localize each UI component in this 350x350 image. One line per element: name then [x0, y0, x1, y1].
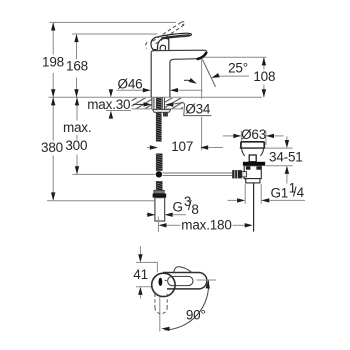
dimension 380 [41, 97, 63, 200]
svg-text:G1: G1 [271, 186, 289, 201]
handle capsule (top view) [163, 273, 207, 289]
dimension max.30 [86, 89, 152, 118]
svg-text:max.: max. [63, 120, 91, 135]
deck bottom line [126, 108, 152, 110]
stream 25 degree line [202, 59, 215, 87]
base circle (top view) [152, 273, 175, 296]
capsule centerline [197, 279, 217, 281]
380 reference line [47, 200, 154, 202]
svg-text:Ø34: Ø34 [185, 102, 211, 117]
deck hatch left [131, 98, 152, 109]
svg-text:168: 168 [66, 58, 88, 73]
spout nose (aerator outlet) [198, 53, 206, 59]
svg-text:max.30: max.30 [87, 97, 130, 112]
threaded shank and stud [152, 98, 165, 142]
axis line below circle [159, 297, 161, 332]
41 extension line top (L-shape) [136, 262, 158, 272]
label 25deg leader [218, 75, 249, 77]
drain taper [242, 148, 264, 156]
deck top line [49, 96, 263, 98]
flexible hose segment 3 [156, 181, 163, 190]
svg-text:max.180: max.180 [181, 218, 231, 233]
label D46 [116, 76, 202, 92]
drain pop-up waste: D63 extension lines [240, 131, 242, 145]
max.300 reference line [72, 173, 155, 175]
dimension G1 1/4 [228, 181, 306, 204]
flexible hose segment 2 [156, 154, 163, 171]
dimension 108 [253, 57, 275, 97]
drain flange top line [240, 147, 266, 149]
washer under deck [153, 109, 171, 112]
drain body holes [246, 166, 251, 169]
faucet body left edge [150, 53, 152, 98]
svg-text:Ø63: Ø63 [241, 127, 266, 142]
drain seal band [243, 162, 265, 166]
rod clamp [232, 170, 242, 178]
pop-up rod (double line) [163, 172, 233, 174]
drain body [244, 166, 261, 179]
svg-text:41: 41 [133, 267, 148, 282]
clamp bracket [242, 172, 247, 177]
41 extension line bottom [136, 286, 152, 288]
svg-text:4: 4 [297, 185, 305, 200]
dimension 107 [147, 139, 223, 154]
drain pin [249, 155, 256, 162]
lever handle raised (dashed) [146, 22, 185, 49]
handle rotated 90 (dashed) [155, 294, 167, 314]
rod guide block [163, 112, 168, 116]
pull rod hole [159, 278, 163, 286]
spout underside [170, 59, 198, 63]
label D34 [165, 99, 212, 117]
drain plug cap [241, 142, 264, 148]
hose nut [153, 194, 167, 198]
extension line lever height [72, 33, 158, 35]
hose crimp ring [154, 190, 164, 193]
dimension 41 [133, 246, 148, 299]
connector tube G3/8 [155, 198, 165, 221]
deck hatch right [165, 98, 184, 109]
svg-text:107: 107 [171, 139, 193, 154]
svg-text:300: 300 [65, 138, 87, 153]
extension line top (raised lever height) [50, 21, 177, 23]
svg-text:380: 380 [41, 140, 63, 155]
svg-text:8: 8 [191, 202, 198, 217]
spout outlet extension line [204, 56, 266, 58]
svg-text:25°: 25° [228, 60, 248, 75]
dimension D63 [223, 127, 284, 142]
svg-text:Ø46: Ø46 [118, 76, 143, 91]
flow arrow [184, 80, 195, 82]
svg-text:90°: 90° [186, 307, 206, 322]
hose junction dot [156, 171, 162, 177]
90 degree arc [165, 281, 209, 330]
dimension max.180 [158, 217, 252, 233]
svg-text:G: G [173, 200, 183, 215]
svg-text:198: 198 [42, 54, 64, 69]
stream vertical reference line [201, 59, 203, 103]
lever handle solid [151, 33, 192, 50]
drain tail pipe [253, 183, 255, 232]
drain nut [246, 179, 260, 183]
dimension 168 [66, 34, 88, 97]
handle inner contour [168, 276, 193, 285]
dimension 198 [42, 22, 64, 97]
faucet body right edge [169, 63, 171, 98]
label G3/8 [146, 194, 198, 217]
svg-text:34-51: 34-51 [269, 150, 303, 165]
lever tab (top view) [174, 267, 192, 272]
dimension 34-51 [265, 136, 303, 183]
dimension max.300 [63, 97, 91, 174]
svg-text:108: 108 [253, 69, 275, 84]
faucet body top edge [151, 50, 207, 53]
